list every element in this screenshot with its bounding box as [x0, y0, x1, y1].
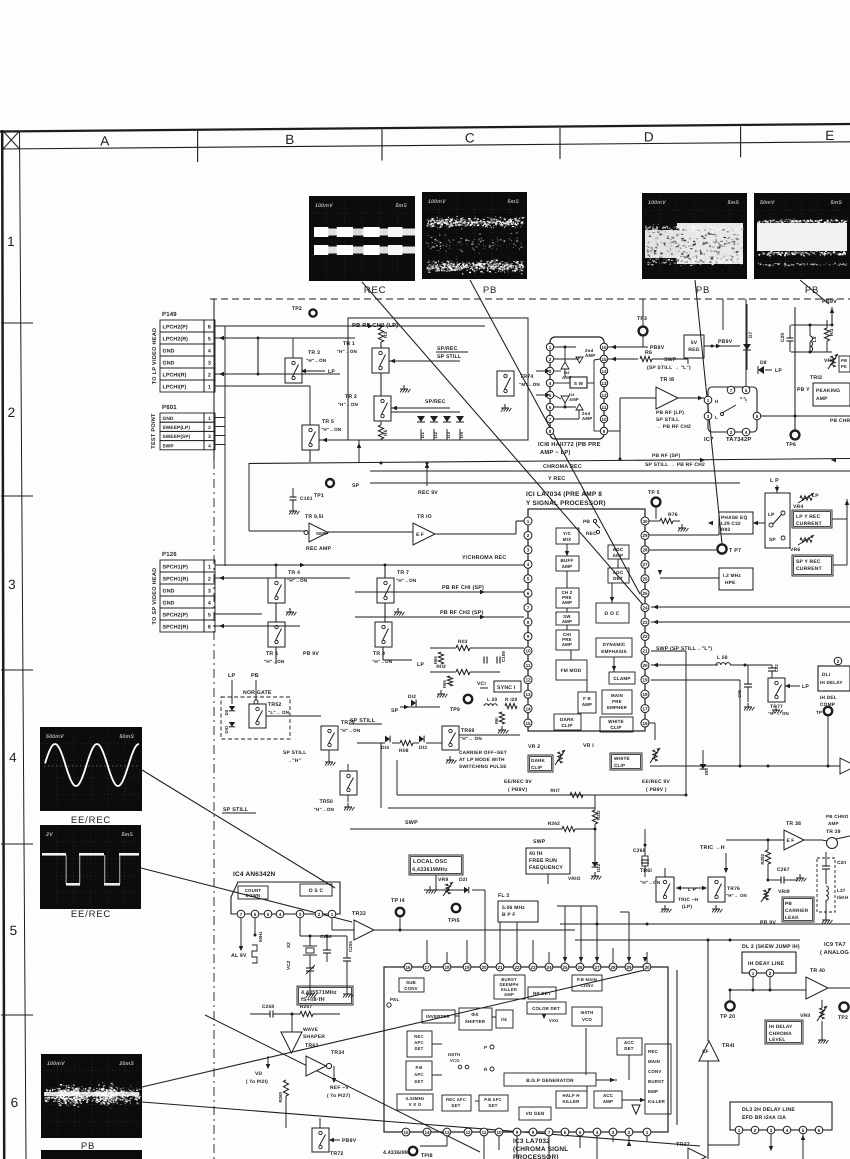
- svg-text:6: 6: [564, 1130, 567, 1135]
- svg-text:P: P: [484, 1045, 487, 1050]
- IC4 pin 6: [251, 910, 259, 918]
- VR4 LP Y REC CURRENT box: [792, 510, 832, 528]
- wire TR2 to R5: [380, 421, 382, 425]
- svg-text:AMP: AMP: [585, 353, 595, 358]
- svg-text:DIO: DIO: [224, 725, 229, 733]
- DL3 box: [730, 1102, 832, 1130]
- DL3 pin 1: [735, 1126, 743, 1134]
- svg-text:AMP: AMP: [828, 821, 839, 826]
- wire TR4 vertical: [275, 565, 277, 578]
- svg-text:PB9V: PB9V: [718, 339, 733, 345]
- IC3 pin 25: [561, 963, 569, 971]
- svg-text:LEAK: LEAK: [785, 915, 799, 921]
- svg-text:B: B: [285, 132, 295, 147]
- svg-text:IH DELAY: IH DELAY: [769, 1024, 793, 1030]
- wire row2 bus from box to IC16: [528, 379, 545, 381]
- wire IC4 pin7 down: [240, 918, 242, 940]
- svg-text:TP2: TP2: [292, 306, 302, 312]
- wire CHROMA REC line: [370, 470, 850, 472]
- svg-text:AMP − LP): AMP − LP): [540, 449, 571, 456]
- wire tr63: [291, 1014, 293, 1032]
- svg-text:Y/C: Y/C: [563, 531, 572, 536]
- ground TR1 emitter: [403, 385, 405, 389]
- wire vertical x723 top: [722, 299, 724, 330]
- IC3 pin riser arrows: [563, 957, 567, 962]
- svg-text:MAIN: MAIN: [611, 693, 623, 698]
- IC16 pin3 arrow: [536, 370, 546, 372]
- 5V REG box: [684, 335, 704, 358]
- IC3 internal PB MAIN CONV: [572, 975, 602, 991]
- IC3 internal 1/4: [496, 1010, 513, 1028]
- ground d22: [594, 872, 596, 876]
- svg-text:L 58: L 58: [717, 655, 728, 661]
- transistor TR1 switch: [372, 348, 389, 373]
- svg-text:BUFF: BUFF: [560, 558, 573, 563]
- IC3 internal REC AFC DET: [442, 1095, 471, 1111]
- svg-text:IC3 LA7032: IC3 LA7032: [513, 1138, 550, 1145]
- IC1 internal AGC AMP: [608, 545, 629, 559]
- capacitor C20: [787, 337, 794, 339]
- transistor TR7 switch: [377, 578, 394, 603]
- svg-text:T P7: T P7: [729, 548, 741, 554]
- svg-text:LPCH2(P): LPCH2(P): [163, 325, 188, 331]
- IC4 pin 4: [276, 910, 284, 918]
- svg-text:→ PB RF CH2: → PB RF CH2: [656, 424, 691, 430]
- svg-text:1: 1: [331, 912, 334, 917]
- svg-text:C109: C109: [501, 651, 506, 662]
- svg-text:HALF H: HALF H: [562, 1093, 579, 1098]
- IC3 pin 17: [423, 963, 431, 971]
- svg-text:TR52: TR52: [268, 702, 282, 708]
- IC1 pin 1: [524, 517, 532, 525]
- svg-text:8: 8: [527, 620, 530, 625]
- svg-text:DET: DET: [613, 576, 623, 581]
- svg-text:VRII: VRII: [800, 1013, 811, 1019]
- svg-text:DET: DET: [452, 1103, 461, 1108]
- svg-text:15: 15: [525, 721, 531, 726]
- svg-text:VRI9: VRI9: [778, 889, 790, 895]
- svg-text:TR33: TR33: [352, 911, 366, 917]
- wire TR5 riser: [309, 386, 311, 425]
- svg-text:"L"→ ON: "L"→ ON: [268, 710, 290, 715]
- svg-text:C267: C267: [777, 867, 790, 873]
- wire P149 row5: [215, 337, 355, 339]
- ground c267: [799, 874, 801, 878]
- transistor TR8 switch: [375, 622, 392, 647]
- svg-text:GND: GND: [163, 416, 174, 422]
- IC3 pin 7: [545, 1128, 553, 1136]
- svg-text:16: 16: [642, 721, 648, 726]
- TR3 LP arrow: [302, 370, 325, 372]
- DL3 pin 5: [799, 1126, 807, 1134]
- column divider: [559, 128, 561, 159]
- svg-text:REG: REG: [688, 347, 699, 353]
- svg-text:IC4 AN6342N: IC4 AN6342N: [233, 871, 276, 878]
- wire IC16 pin9 down: [608, 430, 620, 432]
- svg-text:1: 1: [208, 385, 211, 391]
- svg-text:E F: E F: [416, 532, 424, 538]
- svg-text:50mV: 50mV: [760, 200, 775, 206]
- svg-text:SPCH2(R): SPCH2(R): [163, 625, 189, 631]
- scope photo 2 PB noise waveform: [422, 192, 527, 279]
- IC1 internal CH1 PRE AMP: [556, 630, 579, 650]
- svg-text:CONV: CONV: [648, 1069, 662, 1074]
- svg-text:TP1: TP1: [314, 493, 324, 499]
- VR2 DARK CLIP box: [528, 755, 553, 772]
- svg-text:PB: PB: [483, 285, 497, 296]
- wire r113: [430, 647, 456, 649]
- svg-text:DI3: DI3: [419, 745, 427, 751]
- wire TR6 down: [275, 647, 277, 664]
- PHASE EQ box: [719, 512, 753, 534]
- svg-text:28: 28: [642, 548, 648, 553]
- svg-text:12: 12: [601, 393, 607, 398]
- svg-text:RII5: RII5: [433, 656, 438, 664]
- VR1 WHITE CLIP box: [610, 753, 642, 770]
- svg-text:15: 15: [403, 1130, 409, 1135]
- svg-text:ICI LA7034 (PRE AMP 8: ICI LA7034 (PRE AMP 8: [526, 491, 602, 498]
- svg-text:TR 4: TR 4: [288, 570, 300, 576]
- column divider: [197, 131, 199, 162]
- svg-text:AMP: AMP: [562, 600, 572, 605]
- wire 40th down: [547, 874, 549, 884]
- svg-text:5mS: 5mS: [830, 200, 842, 206]
- svg-text:SHAPER: SHAPER: [303, 1034, 325, 1040]
- svg-text:IH DEL: IH DEL: [820, 695, 837, 701]
- ground c116: [747, 703, 749, 707]
- svg-text:L: L: [715, 415, 718, 420]
- IC1 pin 28: [641, 546, 649, 554]
- svg-text:DI5: DI5: [704, 768, 709, 775]
- ground TR4: [289, 608, 291, 612]
- IC3 pin 15: [402, 1128, 410, 1136]
- wire long y463: [249, 459, 850, 464]
- svg-text:TO SP VIDEO HEAD: TO SP VIDEO HEAD: [152, 568, 158, 625]
- svg-text:23: 23: [642, 620, 648, 625]
- PB CARRIER LEAK box: [782, 897, 814, 922]
- svg-text:22: 22: [514, 965, 520, 970]
- svg-text:FM MOD: FM MOD: [561, 668, 582, 674]
- svg-text:1: 1: [707, 398, 710, 403]
- svg-text:"H"→ ON: "H"→ ON: [726, 893, 747, 898]
- svg-text:CONV: CONV: [581, 983, 594, 988]
- wire dl3 pin1: [738, 1134, 740, 1145]
- IC1 internal FM MOD: [556, 660, 587, 680]
- junction dots misc: [685, 794, 688, 797]
- scope photo 1 REC waveform: [309, 196, 415, 281]
- ground c255: [346, 990, 348, 994]
- svg-text:DARK: DARK: [531, 758, 546, 763]
- svg-text:COLOR DET: COLOR DET: [532, 1006, 560, 1011]
- test point TP14: [396, 908, 404, 916]
- wire PB CHR output: [758, 415, 850, 417]
- svg-text:HPE: HPE: [725, 580, 736, 586]
- IC1 internal BUFF AMP: [556, 556, 579, 571]
- svg-text:TA7342P: TA7342P: [726, 436, 751, 443]
- svg-text:WHITE: WHITE: [614, 756, 630, 761]
- svg-text:30: 30: [642, 519, 648, 524]
- IC3 pin 8: [529, 1128, 537, 1136]
- callout line from photo6 to TR33: [141, 868, 352, 922]
- IC1 box: [528, 509, 645, 731]
- svg-text:30: 30: [644, 965, 650, 970]
- svg-text:REC AMP: REC AMP: [306, 546, 331, 552]
- IC4 pin 2: [315, 910, 323, 918]
- 4.435571MHz box: [297, 986, 353, 1005]
- IC1 pin 3: [524, 546, 532, 554]
- ground L37: [825, 916, 827, 920]
- svg-text:17: 17: [642, 706, 648, 711]
- svg-text:TR 5: TR 5: [322, 419, 334, 425]
- svg-text:Y/CHROMA REC: Y/CHROMA REC: [462, 555, 506, 561]
- svg-text:SYNC I: SYNC I: [497, 685, 516, 691]
- wire TR18 out to IC7: [678, 397, 704, 399]
- IC1 pin 21: [641, 647, 649, 655]
- svg-text:VD GEN: VD GEN: [526, 1111, 545, 1116]
- IC16 pin 3: [546, 367, 553, 374]
- svg-text:4: 4: [279, 912, 282, 917]
- svg-text:TRIC →H: TRIC →H: [700, 845, 725, 851]
- 1.2MHz HPE box: [719, 568, 753, 590]
- svg-text:1: 1: [208, 565, 211, 571]
- svg-text:P.B: P.B: [415, 1065, 422, 1070]
- svg-text:C20: C20: [780, 333, 786, 342]
- svg-text:DARK: DARK: [560, 717, 575, 722]
- svg-text:VR4: VR4: [793, 504, 803, 510]
- svg-text:CLIP: CLIP: [610, 725, 621, 730]
- svg-text:VD: VD: [255, 1071, 263, 1077]
- ground TR69: [449, 756, 451, 760]
- diode D7: [746, 304, 748, 344]
- amp triangle right edge: [840, 758, 850, 774]
- resistor R262: [562, 826, 575, 831]
- wire tp5 down: [655, 506, 657, 519]
- svg-text:PB8V: PB8V: [650, 345, 665, 351]
- wire r260 down: [285, 1096, 287, 1128]
- svg-text:27: 27: [594, 965, 600, 970]
- wire P126 row2: [215, 577, 350, 579]
- svg-text:LP: LP: [228, 673, 235, 679]
- svg-text:16: 16: [601, 345, 607, 350]
- svg-text:5.06 MHz: 5.06 MHz: [502, 905, 525, 911]
- svg-text:FL 3: FL 3: [498, 893, 509, 899]
- IC16 internal 2nd AMP bottom triangle: [576, 404, 583, 410]
- IC16 pin 5: [546, 391, 553, 398]
- wire left schematic boundary: [213, 299, 215, 460]
- svg-text:LOCAL OSC: LOCAL OSC: [413, 859, 448, 865]
- IC3 pin 29: [625, 963, 633, 971]
- IC3 internal PB AFC DET: [479, 1095, 508, 1111]
- svg-text:AMP: AMP: [504, 992, 514, 997]
- svg-text:20: 20: [642, 663, 648, 668]
- svg-text:4: 4: [9, 750, 17, 765]
- svg-text:PB CHR: PB CHR: [830, 418, 850, 424]
- svg-text:6: 6: [11, 1095, 19, 1110]
- wire tr40 out: [828, 987, 850, 989]
- svg-text:PB9V: PB9V: [822, 299, 837, 305]
- svg-text:CURRENT: CURRENT: [796, 521, 822, 527]
- IC3 pin 30: [643, 963, 651, 971]
- scope photo 6 EE/REC pulse waveform: [40, 825, 141, 909]
- svg-text:CLIP: CLIP: [561, 723, 572, 728]
- svg-text:L37: L37: [837, 888, 846, 893]
- IC3 internal INVERTER: [422, 1010, 455, 1023]
- IC3 pin 6: [561, 1128, 569, 1136]
- transistor TR72 switch: [312, 1128, 329, 1152]
- IC3 internal REC MAIN CONV BURST EMP KILLER: [645, 1044, 671, 1114]
- svg-text:R2I2: R2I2: [596, 810, 601, 820]
- wire tr61 tr76 tops: [664, 868, 666, 877]
- svg-text:GND: GND: [163, 589, 175, 595]
- svg-text:VR9: VR9: [438, 877, 448, 883]
- svg-text:9: 9: [527, 634, 530, 639]
- IC7 pin 4: [742, 428, 750, 436]
- row divider tick: [1, 322, 33, 324]
- svg-text:( ANALOG: ( ANALOG: [820, 949, 849, 956]
- svg-text:FREE RUN: FREE RUN: [529, 858, 557, 864]
- svg-text:13: 13: [601, 381, 607, 386]
- svg-text:SWP: SWP: [405, 820, 418, 826]
- resistor R212 vertical: [592, 810, 597, 824]
- svg-text:REC: REC: [364, 285, 386, 296]
- ground TR74: [504, 404, 506, 408]
- label LP between: [676, 887, 706, 889]
- resistor R5: [378, 425, 383, 439]
- IC16 pin 4: [546, 379, 553, 386]
- svg-text:5V: 5V: [691, 340, 698, 346]
- svg-text:PB: PB: [251, 673, 259, 679]
- callout line from photo5 to IC4: [142, 770, 335, 888]
- svg-text:5mS: 5mS: [507, 199, 519, 205]
- svg-text:VCI: VCI: [477, 681, 486, 687]
- wire y840 stub: [560, 837, 605, 839]
- svg-text:SWEEP(LP): SWEEP(LP): [163, 425, 191, 431]
- svg-text:C255: C255: [348, 941, 353, 952]
- wire R3 top: [380, 326, 382, 328]
- svg-text:IC7: IC7: [704, 436, 714, 443]
- svg-text:4,433619MHz: 4,433619MHz: [412, 867, 448, 873]
- transistor TR2 switch: [374, 396, 391, 421]
- svg-text:4,435571MHz: 4,435571MHz: [301, 990, 337, 996]
- IC7 internal switch: [722, 405, 736, 413]
- svg-text:TR 2: TR 2: [345, 394, 357, 400]
- svg-text:DET: DET: [489, 1103, 498, 1108]
- svg-text:TR 1: TR 1: [343, 341, 355, 347]
- IC3 internal VD GEN: [519, 1107, 551, 1120]
- IC1 internal WHITE CLIP: [600, 717, 633, 732]
- wire r212 vertical join: [594, 795, 596, 810]
- svg-text:AMP: AMP: [562, 564, 573, 569]
- IC3 pin 19: [463, 963, 471, 971]
- IC4 pin 1: [328, 910, 336, 918]
- svg-text:TR76: TR76: [727, 886, 740, 892]
- wire IC4 pin1 to TR33: [331, 918, 333, 930]
- svg-text:I.2 MHz: I.2 MHz: [723, 573, 741, 579]
- svg-text:→"H": →"H": [287, 758, 302, 764]
- svg-text:2: 2: [318, 912, 321, 917]
- svg-text:KILLER: KILLER: [648, 1099, 666, 1104]
- IC1 pin 23: [641, 618, 649, 626]
- svg-text:TR 38: TR 38: [786, 821, 801, 827]
- wire TR33 out: [374, 929, 575, 931]
- NOR GATE dashed box: [221, 697, 290, 739]
- svg-text:3: 3: [8, 577, 16, 592]
- svg-text:LPCHI(P): LPCHI(P): [163, 385, 187, 391]
- IC7 pin 1: [704, 396, 712, 404]
- IC1 pin 11: [524, 661, 532, 669]
- corner X box: [3, 131, 20, 149]
- svg-text:DLI: DLI: [822, 672, 831, 678]
- svg-text:SHIFTER: SHIFTER: [465, 1019, 486, 1024]
- svg-text:2: 2: [8, 405, 16, 420]
- IC3 pin 3: [609, 1128, 617, 1136]
- svg-text:13: 13: [525, 692, 531, 697]
- test point TP3: [639, 327, 648, 336]
- svg-text:PROCESSOR): PROCESSOR): [513, 1154, 559, 1159]
- svg-text:2: 2: [754, 1128, 757, 1133]
- svg-text:D8: D8: [760, 360, 767, 366]
- wire vertical right of IC3: [676, 970, 678, 1125]
- svg-text:PHASE EQ: PHASE EQ: [721, 515, 747, 521]
- resistor R13: [824, 328, 829, 341]
- svg-text:EMPHASIS: EMPHASIS: [601, 649, 627, 654]
- wire TR18 in: [620, 397, 656, 399]
- IC3 internal RP DET: [528, 987, 556, 999]
- svg-text:SWITCHING PULSE: SWITCHING PULSE: [459, 764, 507, 770]
- svg-text:1: 1: [738, 1128, 741, 1133]
- svg-text:(SP STILL → "L"): (SP STILL → "L"): [647, 365, 691, 371]
- svg-text:"H"→ON: "H"→ON: [340, 728, 361, 733]
- DL2 pin 2: [766, 969, 774, 977]
- svg-text:26: 26: [577, 965, 583, 970]
- row divider tick: [1, 669, 33, 671]
- svg-text:D O C: D O C: [605, 611, 620, 617]
- svg-text:SP: SP: [352, 483, 360, 489]
- IC1 pin 26: [641, 575, 649, 583]
- svg-text:DET: DET: [415, 1079, 424, 1084]
- resistor R282 vertical: [765, 850, 770, 864]
- svg-text:TR IO: TR IO: [417, 514, 432, 520]
- svg-text:SWP: SWP: [533, 839, 546, 845]
- svg-text:TP 5: TP 5: [648, 490, 660, 496]
- arrow up pin2: [627, 1141, 631, 1146]
- svg-text:MAIN: MAIN: [648, 1059, 660, 1064]
- svg-text:PEAKING: PEAKING: [816, 388, 840, 394]
- svg-text:21: 21: [642, 649, 648, 654]
- svg-text:TRIC −H: TRIC −H: [678, 897, 699, 903]
- IC1 pin 29: [641, 531, 649, 539]
- svg-text:GND: GND: [163, 361, 175, 367]
- svg-text:DI4: DI4: [381, 745, 389, 751]
- svg-text:SP STILL: SP STILL: [223, 807, 249, 813]
- power AL9V: [239, 946, 243, 951]
- IC1 pin 17: [641, 705, 649, 713]
- wire vertical x225: [224, 326, 226, 566]
- IC3 pin 26: [576, 963, 584, 971]
- IC3 internal REC APC DET: [407, 1031, 432, 1057]
- svg-text:4: 4: [549, 381, 552, 386]
- wire TR1-TR2: [380, 373, 382, 396]
- wire P601 stubs: [215, 417, 225, 419]
- wire y795 bus: [397, 794, 687, 796]
- svg-text:SP Y REC: SP Y REC: [796, 559, 821, 565]
- svg-text:3: 3: [208, 589, 211, 595]
- svg-text:R257: R257: [300, 1004, 312, 1010]
- svg-text:5mS: 5mS: [727, 200, 739, 206]
- IC3 internal ACC DET: [617, 1038, 642, 1055]
- IC1 internal CH2 PRE AMP: [556, 588, 579, 608]
- svg-text:ACC: ACC: [624, 1040, 635, 1045]
